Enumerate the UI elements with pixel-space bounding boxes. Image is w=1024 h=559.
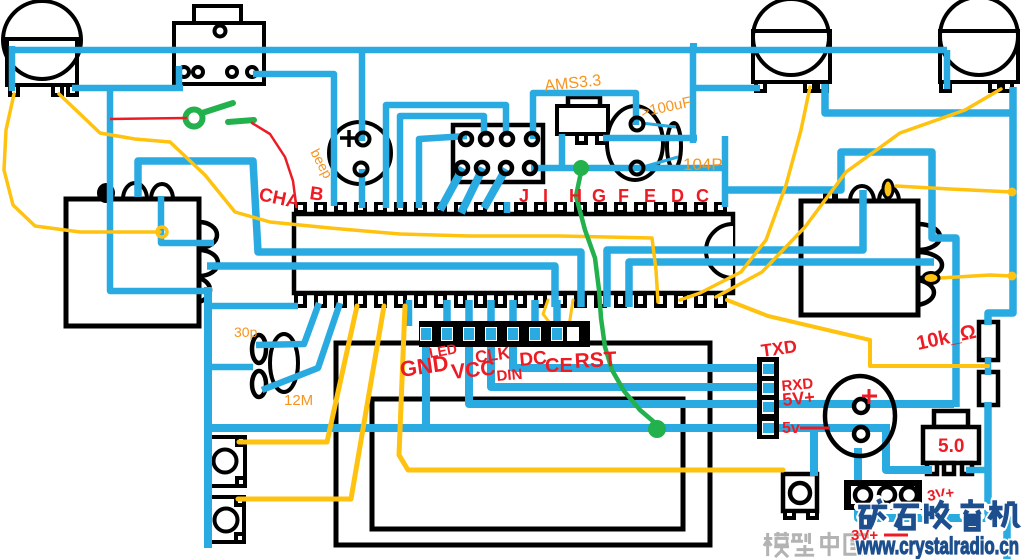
wire: U3 pin3 right (603, 135, 697, 142)
wire: ground bus to U4 pin1 (886, 424, 932, 470)
capacitor C3 30p (252, 371, 266, 397)
wire: S1 pin1 down (176, 66, 183, 90)
pin header J1 (LCD header) (419, 321, 590, 347)
wire: SW2 to U1 pin (yellow) (239, 306, 357, 442)
svg-text:5v: 5v (782, 420, 800, 437)
wire: U1 to U2 pin2 (400, 116, 484, 208)
IC U1 top pin row (294, 202, 727, 214)
potentiometer VR2 (753, 0, 830, 91)
junction on top bus (690, 43, 697, 51)
wire: green jumper from 3.3V node to ground bus (576, 172, 657, 427)
node: yellow tap on T1 (157, 227, 167, 237)
wire: VCC 5V+ rail (469, 332, 954, 404)
wire: T1 coil to U1 via bus (138, 161, 581, 307)
svg-text:F: F (618, 186, 629, 206)
regulator U4 5.0 (923, 411, 979, 474)
svg-text:DC: DC (519, 348, 548, 371)
op-amp U2 (8-pin amplifier) (453, 125, 543, 182)
power jack P1 (825, 376, 895, 456)
wire: U1 to T2 top coil (607, 190, 863, 307)
svg-text:www.crystalradio.cn: www.crystalradio.cn (855, 533, 1019, 559)
svg-text:C: C (696, 186, 709, 206)
wire: VR2 foot2 across to VR3 (825, 84, 1013, 113)
LCD module outline (336, 343, 710, 545)
wire: node down to U1 pin (722, 136, 729, 207)
wire: down through T1 to coil (110, 88, 210, 291)
svg-text:B: B (308, 183, 325, 206)
wire: U1 pin to SW4 (yellow) (399, 306, 783, 470)
IC U1 bottom pin row (294, 293, 727, 308)
pin header J2 (serial TXD/RXD) (757, 357, 779, 439)
wire: top bus to buzzer pin1 (359, 50, 366, 141)
wire: U1 pin to resistor divider (yellow) (727, 300, 988, 366)
wire: U1 to T2 side coil (629, 262, 934, 307)
svg-text:CE: CE (545, 355, 573, 377)
wire: DIN / TXD rail (513, 332, 757, 368)
wire: U2 pin7 diagonal (484, 169, 506, 208)
wire: header squiggles (yellow) (543, 300, 573, 327)
push button SW4 (783, 474, 817, 518)
switch lever (green) contact circle (186, 110, 203, 127)
LCD screen inner rectangle (372, 399, 683, 529)
transformer T2 (801, 186, 942, 315)
capacitor C1 100uF (607, 106, 681, 180)
C1 pin circles (631, 118, 644, 175)
buzzer BZ1 (329, 122, 391, 184)
pin header J3 (battery 3-pin) (844, 480, 922, 510)
wire: main ground bus (206, 424, 888, 432)
T2 yellow tap ovals (883, 180, 939, 284)
wire: U2 pin4 to C1 plus (533, 93, 636, 139)
wire: VR1 wiper to U1 pin (yellow) (59, 94, 658, 302)
wire: top bus down to VR3 pin (944, 50, 951, 89)
wire: SW3 to U1 pin (yellow) (238, 306, 384, 499)
wire: node to T2 and 5V feed (725, 152, 956, 407)
wire: VR3 foot to U1 pin (yellow) (716, 89, 1001, 297)
wire: S1 pin1 to VR1 foot (72, 85, 183, 92)
wire: buzzer pin2 to U1 (359, 169, 366, 208)
svg-text:5V+: 5V+ (781, 387, 815, 410)
transformer T1 (66, 183, 218, 326)
wire: ground to crystal top (208, 303, 298, 310)
wire: VR2 foot to U1 pin (yellow) (680, 87, 810, 300)
switch contact dash (green) (228, 120, 254, 122)
wire: left ground vertical (204, 287, 212, 548)
push button SW2 (207, 437, 245, 486)
svg-text:30p: 30p (234, 324, 258, 340)
wire: U1 to U2 pin3 (386, 105, 506, 208)
node: green solder blob at 3.3V rail (573, 160, 589, 176)
wire: ground bus to SW4 (810, 428, 818, 476)
wire: S1 pin4 to U1 pin (253, 74, 334, 206)
wire: R1 to R2 link (985, 357, 992, 375)
wire: T1 side coil bus to U1 (207, 266, 555, 307)
resistor R1 10k (979, 322, 998, 360)
svg-text:I: I (543, 186, 548, 206)
wire: GND drop from header (422, 332, 430, 430)
wire: U1 to U2 pin1 (419, 136, 467, 208)
wire: ground to crystal mid (209, 364, 253, 371)
wire: U1 pin to C2 (256, 303, 319, 345)
wire: U1 pins to LCD header stubs (409, 202, 557, 332)
wire: U4 pin3 to R2 node (966, 467, 990, 474)
switch S1 (174, 6, 264, 84)
regulator U3 AMS3.3 (557, 97, 608, 143)
buzzer pin circles (355, 133, 370, 176)
wire: thin leads of C1 (641, 123, 678, 167)
crystal X1 12M (270, 334, 298, 392)
push button SW3 (209, 497, 244, 542)
wire: U1 pin to C3 diagonal (262, 303, 340, 390)
wire: U2 pin6 diagonal (461, 168, 483, 213)
wire: main top bus (11, 47, 947, 54)
svg-text:J: J (519, 186, 529, 206)
capacitor C2 30p (252, 335, 266, 363)
switch lever arm (green) (202, 103, 233, 113)
wire: red lead to lever switch (110, 118, 187, 119)
wire: T2 side tap to right rail (yellow) (940, 275, 1012, 278)
svg-text:E: E (644, 186, 656, 206)
svg-text:D: D (671, 186, 684, 206)
IC U1 main chip body (294, 214, 733, 293)
svg-text:5.0: 5.0 (938, 436, 964, 457)
svg-text:12M: 12M (284, 392, 313, 409)
wire: U3 pin1 down to rail (559, 134, 566, 170)
svg-text:RST: RST (574, 348, 617, 373)
wire: T1 coil link (161, 196, 214, 243)
wire: U2 pin5 diagonal (440, 168, 463, 210)
wire: CLK / RXD rail (491, 332, 757, 387)
watermark: model china gray text (764, 532, 867, 557)
resistor R2 10k (979, 372, 998, 405)
potentiometer VR3 (940, 0, 1018, 91)
wire: R2 down to bottom (988, 402, 1007, 559)
wire: VR1 foot to T1 tap (yellow) (4, 94, 160, 232)
node: green solder blob at ground bus (648, 420, 666, 438)
U2 pin circles (456, 133, 538, 174)
wire: junction to VR2 foot (694, 85, 760, 92)
wire: 3.3V rail U2 to node (531, 165, 725, 172)
wire: top bus junction down (690, 46, 697, 143)
IC U1 orientation notch (706, 224, 733, 278)
svg-text:G: G (592, 186, 606, 206)
potentiometer VR1 (3, 1, 81, 95)
svg-text:3V+: 3V+ (851, 527, 878, 544)
wire: jack minus down and right (858, 448, 1005, 518)
svg-text:DIN: DIN (496, 366, 523, 385)
pin letters J I H G F E D C (519, 186, 709, 206)
watermark: crystal radio chinese logo (858, 499, 1019, 529)
wire: T2 coil tap to right rail (yellow) (896, 186, 1012, 192)
wire: red lead switch to U1 pin B (252, 123, 296, 204)
svg-text:104P: 104P (683, 155, 723, 174)
svg-text:H: H (569, 186, 582, 206)
wire: VR1 pin to top bus (9, 46, 16, 91)
wire: VR3 foot down right edge (988, 87, 1013, 325)
